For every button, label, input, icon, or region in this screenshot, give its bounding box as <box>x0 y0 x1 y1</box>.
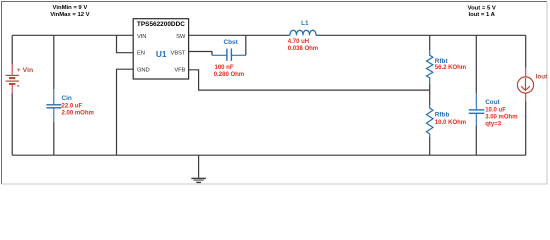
svg-text:Cout: Cout <box>485 99 500 106</box>
svg-text:Iout: Iout <box>536 74 548 81</box>
svg-text:L1: L1 <box>301 20 309 27</box>
capacitor Cin branch wires <box>53 35 55 89</box>
wire top rail SW-to-L1 segment <box>189 34 288 36</box>
inductor L1 <box>288 30 318 35</box>
svg-text:Rfbt: Rfbt <box>435 58 449 65</box>
annotation VinMin/VinMax <box>50 5 89 18</box>
wire Cbst to SW node <box>245 35 247 55</box>
svg-text:+ Vin: + Vin <box>17 67 33 74</box>
wire top rail Vin segment <box>12 34 133 36</box>
wire top rail L1-to-Iout segment <box>317 34 526 36</box>
svg-text:VinMax = 12 V: VinMax = 12 V <box>50 12 89 18</box>
wire Iout branch top <box>525 35 527 68</box>
svg-text:VFB: VFB <box>174 67 185 73</box>
svg-text:Cin: Cin <box>62 95 72 102</box>
op-amp U1 TPS562200DDC box <box>133 19 188 79</box>
svg-text:-: - <box>17 80 20 90</box>
svg-text:3.00 mOhm: 3.00 mOhm <box>485 114 517 120</box>
svg-text:2.00 mOhm: 2.00 mOhm <box>62 111 94 117</box>
wire left rail below battery <box>11 94 13 156</box>
current source Iout <box>517 68 533 102</box>
svg-text:Iout = 1 A: Iout = 1 A <box>468 12 495 18</box>
svg-text:SW: SW <box>176 34 186 40</box>
svg-text:0.280 Ohm: 0.280 Ohm <box>214 72 244 78</box>
wire VBST stub <box>189 52 212 56</box>
capacitor Cin <box>46 89 61 121</box>
svg-text:EN: EN <box>137 50 145 56</box>
annotation Vout/Iout <box>468 5 496 18</box>
svg-text:0.038 Ohm: 0.038 Ohm <box>288 46 318 52</box>
svg-text:Rfbb: Rfbb <box>435 112 450 119</box>
capacitor Cout <box>469 93 485 125</box>
outer frame bottom-right <box>2 2 548 185</box>
wire between Rfbt and Rfbb <box>429 90 431 106</box>
svg-text:TPS562200DDC: TPS562200DDC <box>137 21 185 28</box>
capacitor Cbst <box>212 49 246 61</box>
svg-text:VBST: VBST <box>171 50 186 56</box>
wire Iout branch bottom <box>525 102 527 156</box>
battery Vin <box>6 64 19 94</box>
svg-text:100 nF: 100 nF <box>215 65 234 71</box>
outer frame top-left <box>2 2 548 185</box>
resistor Rfbt branch wire top <box>429 35 431 50</box>
svg-text:VinMin = 9 V: VinMin = 9 V <box>53 5 88 11</box>
wire EN tie to Vin rail <box>117 35 134 52</box>
svg-text:GND: GND <box>137 67 150 73</box>
svg-text:U1: U1 <box>156 49 167 59</box>
resistor Rfbb <box>426 106 433 137</box>
capacitor Cout branch wires <box>475 35 477 93</box>
wire GND pin to ground rail <box>117 69 134 155</box>
svg-text:VIN: VIN <box>137 34 146 40</box>
svg-text:qty=3: qty=3 <box>485 121 502 127</box>
svg-text:56.2 KOhm: 56.2 KOhm <box>435 65 466 71</box>
resistor Rfbt <box>427 50 433 83</box>
ground <box>191 155 206 182</box>
wire bottom ground rail <box>12 154 526 156</box>
svg-text:22.0 uF: 22.0 uF <box>62 104 83 110</box>
wire left rail above battery <box>11 35 13 64</box>
wire VFB stub and feedback net <box>189 70 430 90</box>
svg-text:4.70 uH: 4.70 uH <box>288 39 309 45</box>
svg-text:Vout = 5 V: Vout = 5 V <box>468 5 496 11</box>
resistor Rfbb wire bottom <box>429 137 431 155</box>
svg-text:10.0 uF: 10.0 uF <box>485 107 506 113</box>
svg-text:10.0 KOhm: 10.0 KOhm <box>435 120 466 126</box>
svg-text:Cbst: Cbst <box>224 39 239 46</box>
